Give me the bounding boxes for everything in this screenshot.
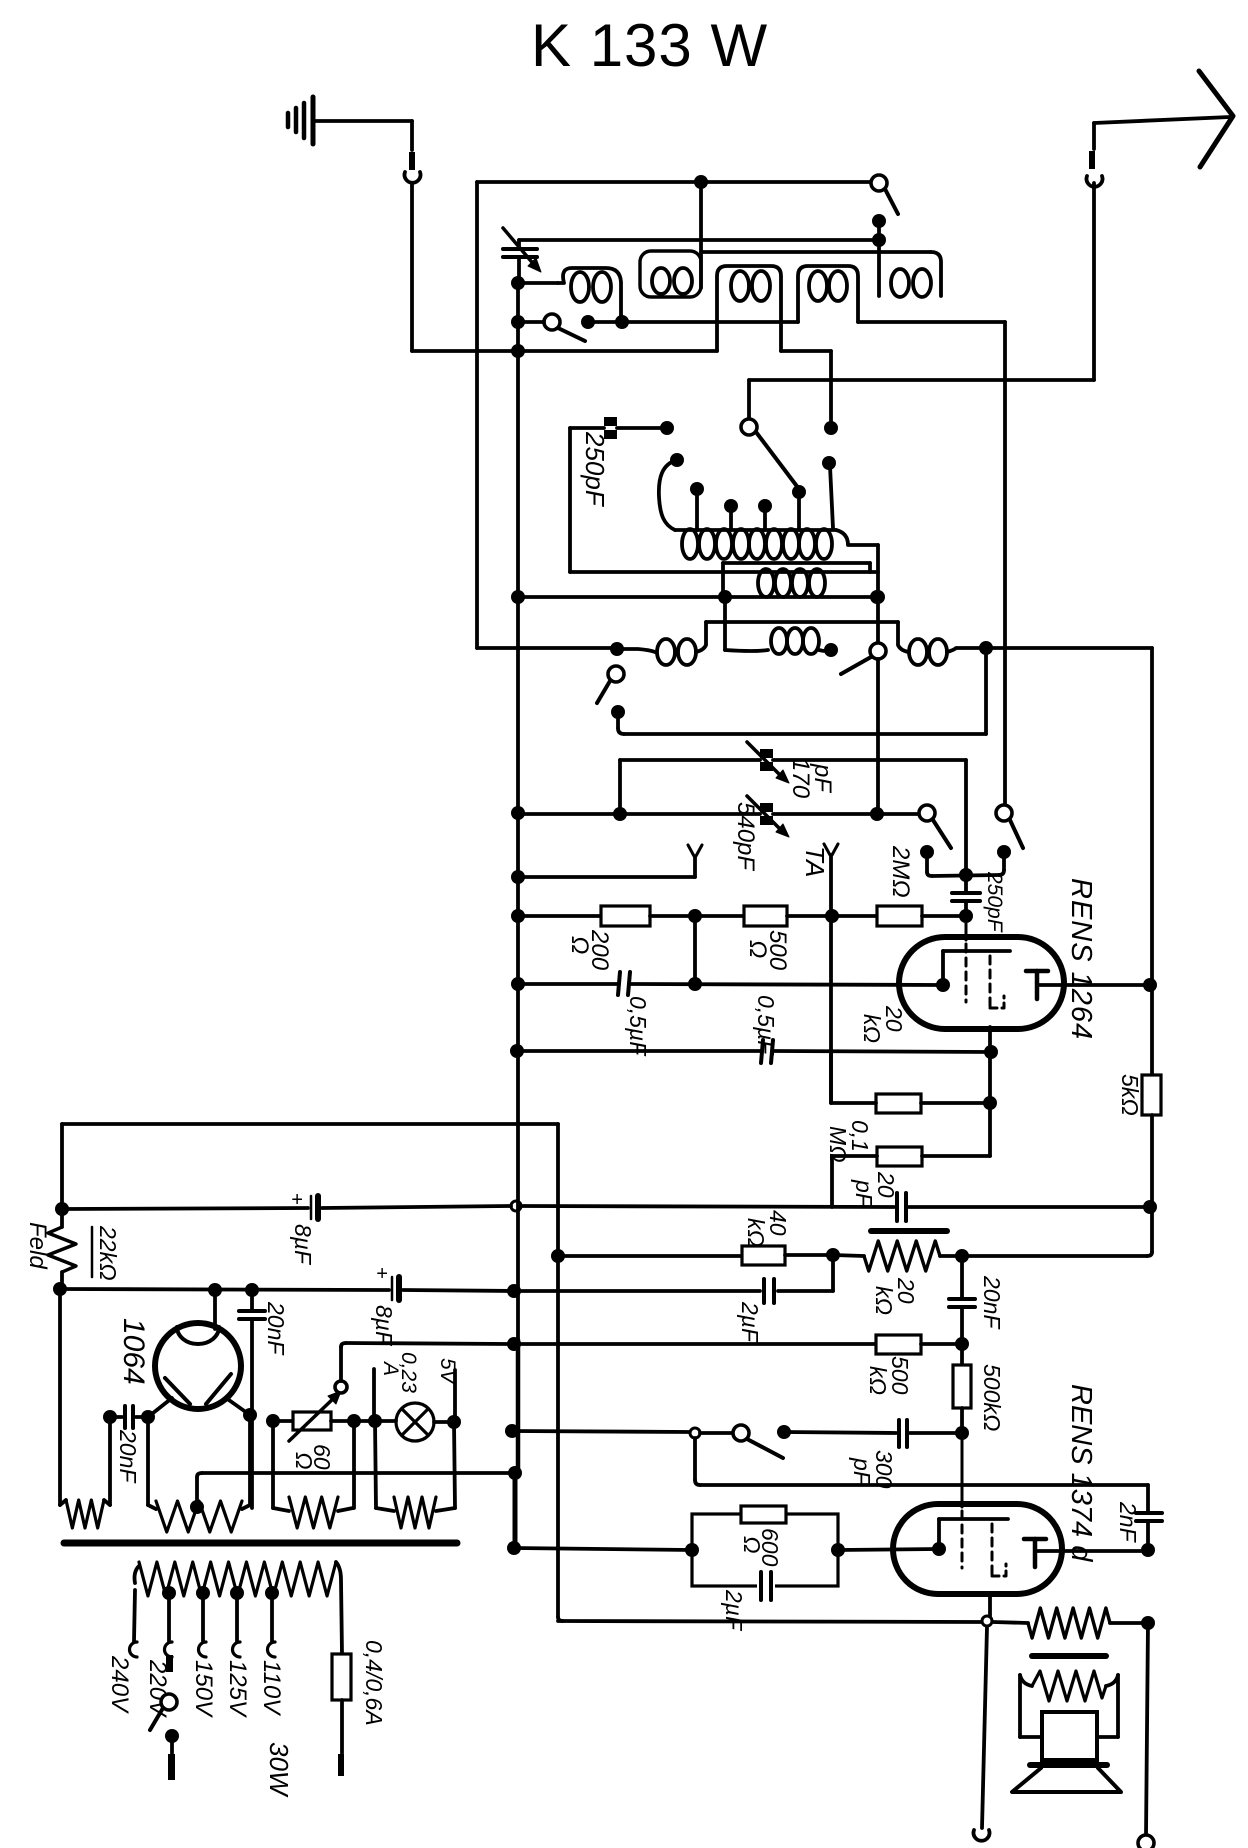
junction <box>551 1249 565 1263</box>
speaker coil zz <box>1032 1671 1118 1701</box>
svg-text:20nF: 20nF <box>263 1301 289 1356</box>
wire y=916 c <box>787 914 877 918</box>
svg-text:kΩ: kΩ <box>743 1218 769 1247</box>
svg-text:+: + <box>291 1189 303 1211</box>
switch S3 pivot <box>544 314 560 330</box>
svg-text:+: + <box>376 1263 388 1285</box>
wire x=831 <box>829 351 833 428</box>
junction <box>826 1248 840 1262</box>
junction <box>824 421 838 435</box>
wire y=1343 <box>346 1343 514 1344</box>
label 125V <box>224 1660 251 1718</box>
svg-text:125V: 125V <box>224 1660 251 1718</box>
wire y=814 right <box>773 812 919 816</box>
wire coil L4 right leg <box>858 320 1005 324</box>
speaker frame <box>1020 1675 1118 1737</box>
junction <box>511 276 525 290</box>
wire y=916 a <box>518 914 601 918</box>
wire x=376 down <box>375 1421 376 1508</box>
label 240V <box>106 1655 133 1714</box>
label 220V <box>144 1659 171 1718</box>
coil L2 <box>640 251 701 297</box>
switch S5 blade <box>597 681 610 703</box>
plate bar a <box>871 1228 947 1234</box>
wire x=252 c <box>250 1415 254 1508</box>
label 500k v <box>979 1364 1005 1431</box>
junction <box>511 806 525 820</box>
wire heater a <box>273 1419 293 1423</box>
winding C <box>273 1497 353 1528</box>
wire y=984 b <box>631 984 943 985</box>
label 2 Mohm <box>887 845 914 898</box>
svg-text:Ω: Ω <box>566 936 593 954</box>
label 8uF b <box>371 1305 397 1347</box>
junction <box>511 590 525 604</box>
tap hook 240 <box>130 1642 137 1657</box>
junction <box>208 1283 222 1297</box>
ring junction <box>511 1201 521 1211</box>
wire x=455 down <box>454 1422 455 1508</box>
mains pin a <box>166 1655 173 1672</box>
resistor 2 Mohm <box>877 906 922 926</box>
junction <box>507 1284 521 1298</box>
junction <box>955 1426 969 1440</box>
wire y=1290 b <box>403 1290 514 1291</box>
junction <box>685 1543 699 1557</box>
wire x=1148 bottom <box>1146 1623 1148 1836</box>
junction <box>511 344 525 358</box>
label RENS 1374d <box>1065 1384 1097 1562</box>
label 60 ohm <box>291 1444 335 1470</box>
wire y=875 <box>932 875 999 876</box>
wire x=878 down <box>876 545 880 642</box>
label 2nF <box>1115 1501 1141 1544</box>
TA fork <box>824 844 838 1102</box>
capacitor 8uF b <box>376 1263 399 1300</box>
fuse 0.4/0.6A <box>332 1654 351 1776</box>
wire zz <box>833 1255 962 1256</box>
junction <box>872 233 886 247</box>
wire y=1256 right <box>962 1254 1147 1258</box>
svg-text:Ω: Ω <box>739 1536 765 1554</box>
svg-text:RENS 1264: RENS 1264 <box>1065 878 1097 1040</box>
label fuse <box>361 1640 387 1726</box>
junction <box>53 1282 67 1296</box>
wire y=351 to coil3 <box>412 349 717 353</box>
wire x=620 <box>618 760 622 814</box>
wire y=648 right <box>986 646 1152 650</box>
wire 0.1M right <box>922 1154 990 1158</box>
junction <box>1143 1200 1157 1214</box>
coil bracket <box>701 252 941 296</box>
wire heater c <box>375 1419 396 1423</box>
ring junction b <box>690 1428 700 1438</box>
wire y=648 left <box>477 646 612 650</box>
bus thick segment <box>513 1473 518 1548</box>
wire y=760 right <box>773 758 966 762</box>
tube 1064 envelope <box>155 1323 241 1409</box>
tube RENS1374 envelope <box>893 1504 1062 1594</box>
plug connector (earth lead-in) <box>404 152 420 183</box>
wire x=879 to coil L5 <box>877 221 881 296</box>
junction <box>610 642 624 656</box>
junction <box>1141 1543 1155 1557</box>
junction <box>694 175 708 189</box>
wire x=570 <box>568 428 572 572</box>
label 40k <box>743 1210 791 1247</box>
wire y=322 <box>588 320 798 324</box>
label 250pF <box>580 431 610 508</box>
junction <box>984 1045 998 1059</box>
svg-text:2µF: 2µF <box>721 1589 747 1632</box>
primary winding <box>135 1562 343 1654</box>
wire S5 down <box>618 712 624 734</box>
junction <box>511 870 525 884</box>
tube RENS1264 anode <box>1026 971 1152 999</box>
lamp <box>396 1403 434 1441</box>
junction <box>955 1337 969 1351</box>
wire y=916 b <box>650 914 744 918</box>
wire antenna horizontal <box>1094 117 1230 123</box>
junction <box>511 315 525 329</box>
label 5k <box>1117 1074 1143 1116</box>
tube RENS1264 grid <box>965 916 968 1002</box>
junction <box>871 590 885 604</box>
wire y=984 a <box>518 982 617 986</box>
svg-text:8µF: 8µF <box>290 1224 316 1266</box>
wire y=1051 a <box>517 1049 760 1053</box>
resistor 500k v <box>953 1344 971 1433</box>
tube 1064 top arc <box>177 1327 219 1344</box>
tube 1064 anodes <box>165 1374 231 1404</box>
label 20nF a <box>979 1275 1005 1330</box>
label 110V <box>258 1660 285 1716</box>
terminal circle <box>1138 1835 1154 1848</box>
junction <box>955 1249 969 1263</box>
svg-text:Feld: Feld <box>24 1222 51 1269</box>
label TA <box>800 846 830 877</box>
junction <box>347 1414 361 1428</box>
speaker cone <box>1012 1768 1121 1792</box>
plate bar b <box>1032 1653 1106 1659</box>
plug connector (antenna lead-in) <box>1087 123 1103 187</box>
ground symbol <box>288 97 313 144</box>
primary taps <box>162 1586 279 1600</box>
wire to coil L1 <box>518 281 558 285</box>
wire to band switch S1 <box>747 380 751 419</box>
wire x=215 <box>213 1290 217 1329</box>
svg-text:Ω: Ω <box>744 940 771 958</box>
capacitor 20pF <box>897 1193 906 1221</box>
coil L1 <box>558 268 621 322</box>
wire y=1124 <box>62 1122 558 1126</box>
capacitor 20nF a <box>949 1256 975 1344</box>
switch S6 blade <box>933 820 951 848</box>
capacitor 250pF <box>570 417 667 439</box>
resistor 500 ohm <box>744 906 787 926</box>
wire y=351b <box>781 349 831 353</box>
switch S5 contact <box>611 705 625 719</box>
rheostat wiper <box>335 1343 347 1393</box>
coil L4 <box>798 266 858 322</box>
junction <box>959 868 973 882</box>
wire x=1152 b <box>1150 985 1154 1075</box>
transformer core <box>64 1540 457 1547</box>
coil L6 winding <box>675 529 878 559</box>
tap hook 125 <box>233 1642 241 1657</box>
switch S8 contact <box>777 1425 791 1439</box>
svg-text:2µF: 2µF <box>737 1301 763 1344</box>
svg-text:pF: pF <box>809 763 836 793</box>
capacitor 20nF b <box>239 1290 265 1415</box>
lamp stub a <box>372 1369 376 1421</box>
wire y=597 <box>518 595 725 599</box>
coil L8 <box>898 622 986 665</box>
wire y=734 <box>624 732 986 736</box>
coil L6 left terminal <box>659 453 684 530</box>
tube RENS1264 screen <box>990 956 1004 1052</box>
wire y=1291 d <box>778 1289 833 1293</box>
wire x=986 bottom <box>982 1627 987 1828</box>
label 30W <box>264 1742 294 1798</box>
tube 1064 leads <box>148 1398 250 1417</box>
switch S4 pivot <box>870 643 886 659</box>
svg-text:pF: pF <box>849 1457 875 1487</box>
antenna symbol <box>1199 71 1233 167</box>
shield box <box>723 563 870 597</box>
label 8uF a <box>290 1224 316 1266</box>
junction <box>141 1410 155 1424</box>
wire y=1432 d <box>910 1431 962 1435</box>
tube RENS1264 cathode <box>936 951 1010 992</box>
svg-text:0,4/0,6A: 0,4/0,6A <box>361 1640 387 1726</box>
wire y=1473 <box>202 1471 515 1475</box>
terminal hook <box>973 1830 989 1841</box>
junction <box>368 1414 461 1429</box>
tap hook 220 <box>165 1642 173 1657</box>
label 0.5uF a <box>625 996 651 1057</box>
cathode box <box>692 1514 838 1586</box>
tube RENS1374 screen <box>990 1524 1006 1616</box>
resistor 40k <box>742 1246 785 1265</box>
wire y=916 d <box>922 914 966 918</box>
capacitor 2uF b <box>757 1572 775 1600</box>
wire 0.1M left <box>832 1156 877 1207</box>
junction <box>266 1414 280 1428</box>
coil L3 <box>717 266 781 351</box>
junction <box>688 977 702 991</box>
tube RENS1264 envelope <box>899 937 1064 1029</box>
tube RENS1374 grid <box>961 1433 964 1568</box>
rheostat 60 ohm <box>289 1391 341 1441</box>
coil L5 <box>891 269 931 297</box>
wire y=240 trimmer to coil <box>519 238 879 242</box>
capacitor 170pF <box>747 742 789 783</box>
svg-text:A: A <box>379 1360 402 1376</box>
capacitor 250pF grid <box>952 875 980 916</box>
label 2uF b <box>721 1589 747 1632</box>
tap wires <box>134 1590 272 1641</box>
wire y=1051 b <box>774 1051 991 1052</box>
resistor 20k <box>876 1094 921 1113</box>
svg-text:8µF: 8µF <box>371 1305 397 1347</box>
wire x=1005 down <box>1003 322 1007 805</box>
label 0.5uF b <box>753 995 779 1056</box>
speaker magnet <box>1042 1712 1097 1760</box>
wire x=990 <box>988 1052 992 1156</box>
wire cathode left <box>838 1549 939 1550</box>
wire y=182 top <box>477 180 879 184</box>
junction <box>831 1543 845 1557</box>
resistor 5k <box>1142 1075 1161 1115</box>
svg-text:0,5µF: 0,5µF <box>625 996 651 1057</box>
mains pin b <box>168 1736 175 1780</box>
junction <box>508 1466 522 1480</box>
label Feld <box>24 1222 51 1269</box>
label 200 ohm <box>566 929 613 971</box>
junction <box>243 1408 257 1422</box>
wire y=1622 b <box>993 1622 1028 1623</box>
label RENS 1264 <box>1065 878 1097 1040</box>
label 1064 <box>117 1318 150 1385</box>
resistor 0.1M <box>877 1147 922 1166</box>
label 250pF b <box>983 871 1006 933</box>
junction <box>688 909 702 923</box>
tap hook 110 <box>268 1642 276 1657</box>
label 20nF b <box>263 1301 289 1356</box>
svg-text:110V: 110V <box>258 1660 285 1716</box>
mains switch blade <box>150 1708 163 1730</box>
label 22k <box>92 1225 121 1281</box>
capacitor 2uF a <box>764 1279 774 1303</box>
svg-text:22kΩ: 22kΩ <box>95 1225 121 1281</box>
capacitor 300pF <box>899 1420 907 1447</box>
resistor zz speaker <box>1028 1608 1110 1638</box>
svg-text:250pF: 250pF <box>580 431 610 508</box>
svg-text:250pF: 250pF <box>983 871 1006 933</box>
resistor 600 ohm <box>741 1506 786 1523</box>
wire y=1209 b <box>322 1206 511 1208</box>
junction <box>507 1541 521 1555</box>
wire y=1548 <box>514 1548 692 1550</box>
coil L7 <box>617 622 706 665</box>
switch S1 pivot <box>741 419 757 435</box>
wire y=760 <box>620 758 760 762</box>
wire y=622 <box>706 620 898 624</box>
wire y=380 <box>749 378 1094 382</box>
wire left vertical x=477 <box>475 182 479 648</box>
junction <box>825 909 839 923</box>
switch S7 pivot <box>996 805 1012 821</box>
capacitor 0.5uF a <box>618 972 630 995</box>
svg-text:TA: TA <box>800 846 830 877</box>
capacitor 2nF <box>1136 1485 1162 1550</box>
wire x=62 <box>60 1124 64 1227</box>
wire y=1485 <box>700 1483 1148 1487</box>
wire ground to plug <box>313 121 412 150</box>
junction <box>1143 978 1157 992</box>
wire earth lead down <box>410 184 414 351</box>
trimmer capacitor C1 <box>503 228 541 283</box>
wire 40k right <box>785 1253 833 1257</box>
junction <box>511 909 525 923</box>
speaker coil entry <box>1020 1675 1032 1686</box>
wire heater b <box>331 1419 375 1423</box>
capacitor 20nF c <box>110 1406 148 1428</box>
label 20k <box>859 1005 907 1043</box>
wire y=877 <box>518 875 695 879</box>
svg-text:MΩ: MΩ <box>825 1126 851 1163</box>
svg-text:20nF: 20nF <box>115 1429 141 1484</box>
junction <box>660 421 674 435</box>
junction <box>613 807 627 821</box>
wire y=1432 a <box>512 1431 690 1432</box>
wire y=572 <box>570 570 878 574</box>
bus x=518 <box>516 351 520 1473</box>
svg-text:240V: 240V <box>106 1655 133 1714</box>
junction <box>507 1337 521 1351</box>
wire y=814 <box>518 812 760 816</box>
svg-text:540pF: 540pF <box>732 802 759 871</box>
wire heater d <box>434 1420 454 1424</box>
svg-text:1064: 1064 <box>117 1318 150 1385</box>
ring junction c <box>982 1616 992 1626</box>
label 20k zz <box>871 1277 919 1315</box>
wire 500k right <box>921 1342 962 1346</box>
wire 20k right <box>921 1101 990 1105</box>
junction <box>1141 1616 1155 1630</box>
grid fork <box>688 845 702 877</box>
label 20pF <box>851 1171 899 1209</box>
switch S1 blade <box>756 432 799 489</box>
svg-text:Ω: Ω <box>291 1452 317 1470</box>
wire x=1152 c <box>1147 1115 1152 1256</box>
label 170pF <box>787 758 836 799</box>
label 500 ohm <box>744 930 791 971</box>
mains switch pivot <box>161 1694 177 1710</box>
switch S2 contact <box>872 214 886 228</box>
switch S3 contacts <box>581 315 629 329</box>
wire y=1209 <box>62 1208 308 1209</box>
svg-text:kΩ: kΩ <box>859 1014 885 1043</box>
svg-text:20nF: 20nF <box>979 1275 1005 1330</box>
wire x=354 down <box>352 1421 356 1508</box>
wire x=694 <box>695 1438 700 1485</box>
wire antenna lead down <box>1092 183 1096 380</box>
junction <box>979 641 993 655</box>
switch S4 blade <box>841 657 871 674</box>
wire y=1290 <box>60 1289 389 1290</box>
wire x=273 down <box>271 1421 275 1508</box>
transformer T1 secondary <box>725 597 838 657</box>
resistor 20k zigzag <box>864 1241 940 1271</box>
wire y=1207 a <box>521 1206 894 1207</box>
svg-text:150V: 150V <box>190 1660 217 1718</box>
svg-text:kΩ: kΩ <box>865 1366 891 1395</box>
junction <box>55 1202 69 1216</box>
label 2uF a <box>737 1301 763 1344</box>
speaker top plate <box>1030 1762 1107 1768</box>
mains switch contact <box>165 1729 179 1743</box>
svg-text:K 133 W: K 133 W <box>531 12 768 79</box>
junction <box>870 807 884 821</box>
coil L6 taps <box>690 456 836 530</box>
label 0.1M <box>825 1120 873 1163</box>
wire zz2 <box>1110 1621 1148 1625</box>
label 20nF c <box>115 1429 141 1484</box>
resistor 500k h <box>876 1335 921 1354</box>
svg-text:500kΩ: 500kΩ <box>979 1364 1005 1431</box>
